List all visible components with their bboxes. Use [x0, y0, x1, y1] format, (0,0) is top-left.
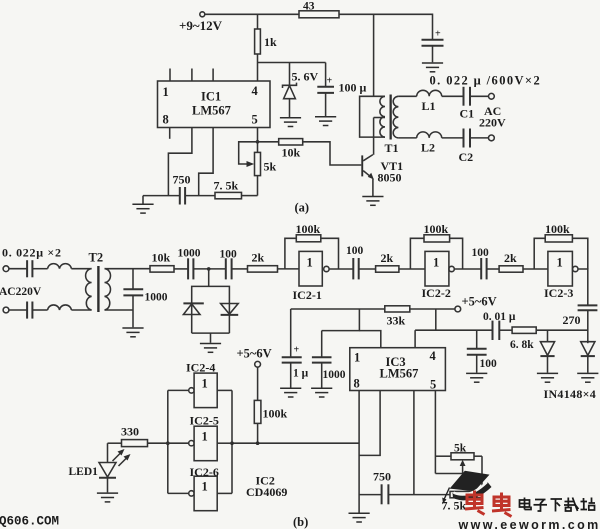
svg-text:6. 8k: 6. 8k	[510, 339, 534, 351]
capacitor 270	[563, 305, 598, 343]
wire node pin4	[257, 54, 259, 81]
svg-text:2k: 2k	[504, 251, 517, 265]
wire	[442, 95, 463, 97]
capacitor 0.022u lower	[27, 302, 32, 319]
svg-text:1 μ: 1 μ	[293, 368, 309, 380]
watermark graduation cap	[442, 471, 491, 504]
svg-text:4: 4	[430, 349, 437, 363]
capacitor C1	[460, 87, 475, 121]
resistor 6.8k	[510, 327, 536, 351]
wire	[487, 268, 500, 270]
svg-text:43: 43	[303, 1, 315, 13]
svg-text:IC2-1: IC2-1	[293, 288, 322, 302]
diode D4 IN4148	[581, 342, 595, 373]
capacitor 1000 coupling	[178, 248, 201, 280]
svg-text:1k: 1k	[264, 35, 277, 49]
svg-text:L1: L1	[422, 99, 436, 113]
svg-text:100: 100	[472, 247, 490, 259]
wire IC3 pin3 down	[413, 391, 415, 495]
svg-text:5. 6V: 5. 6V	[292, 70, 319, 84]
bottom rail with 750 cap	[143, 195, 179, 197]
wire pin stub to ground rail	[168, 128, 192, 196]
capacitor 0.022u upper	[27, 260, 32, 277]
wire out3 down	[578, 269, 588, 305]
wire	[499, 329, 512, 331]
svg-text:8050: 8050	[378, 171, 402, 185]
wire	[32, 309, 47, 311]
svg-text:+: +	[327, 76, 333, 87]
resistor 100k vertical	[254, 367, 287, 443]
resistor 330	[108, 425, 168, 447]
resistor 10k	[258, 139, 303, 160]
inductor L1	[417, 90, 442, 113]
svg-text:+5~6V: +5~6V	[237, 347, 272, 361]
wire	[523, 268, 548, 270]
wire	[232, 268, 248, 270]
svg-text:100 μ: 100 μ	[339, 81, 367, 95]
svg-text:IC2-4: IC2-4	[186, 361, 215, 375]
svg-text:C1: C1	[460, 107, 475, 121]
wire up to pot	[481, 456, 483, 491]
svg-text:T2: T2	[89, 251, 104, 265]
svg-text:270: 270	[563, 313, 581, 327]
diode D1 up	[183, 303, 203, 314]
wire with node	[193, 268, 225, 270]
zener diode 5.6V	[283, 63, 319, 118]
ground	[577, 373, 598, 382]
ground	[349, 513, 370, 522]
wire pin5 node	[257, 128, 259, 153]
svg-text:T1: T1	[385, 141, 399, 155]
svg-text:LM567: LM567	[192, 104, 231, 118]
svg-text:750: 750	[173, 173, 191, 187]
inverter bus left	[167, 390, 169, 493]
LED1	[69, 443, 131, 492]
resistor 7.5k	[214, 179, 242, 199]
ground	[466, 373, 487, 382]
wire	[71, 268, 91, 270]
wire	[9, 309, 27, 311]
resistor 2k s1	[376, 251, 399, 272]
svg-text:AC220V: AC220V	[0, 286, 42, 298]
inverter IC2-2	[422, 251, 455, 300]
node dot	[256, 140, 260, 144]
svg-text:5k: 5k	[264, 160, 277, 174]
svg-text:7. 5k: 7. 5k	[214, 179, 239, 193]
svg-text:(a): (a)	[295, 201, 310, 215]
wire	[359, 268, 376, 270]
svg-text:1: 1	[557, 256, 563, 270]
svg-text:330: 330	[121, 425, 139, 439]
op-amp IC1 LM567 box	[158, 81, 271, 128]
svg-text:2k: 2k	[381, 251, 394, 265]
svg-text:10k: 10k	[152, 251, 171, 265]
wire IC3 pin5 down	[434, 391, 436, 474]
wire	[185, 195, 215, 197]
wire	[442, 137, 463, 139]
svg-text:IC2-6: IC2-6	[190, 465, 219, 479]
svg-text:0. 022 μ /600V×2: 0. 022 μ /600V×2	[430, 74, 542, 88]
capacitor 0.01u	[483, 311, 516, 340]
wire	[399, 268, 425, 270]
resistor 7.5k hidden	[442, 491, 483, 512]
svg-text:100k: 100k	[296, 222, 321, 236]
svg-text:220V: 220V	[479, 116, 506, 130]
capacitor 1000 shunt	[123, 269, 167, 310]
node dot	[207, 267, 211, 271]
svg-text:+: +	[435, 29, 441, 40]
inductor input lower	[48, 305, 72, 310]
svg-text:1000: 1000	[145, 292, 168, 304]
T2 core	[97, 266, 99, 312]
resistor 10k	[150, 251, 174, 273]
transformer T1 primary loop	[360, 96, 385, 155]
svg-text:8: 8	[163, 113, 169, 127]
inverter IC2-1	[293, 251, 330, 302]
svg-text:5: 5	[430, 378, 436, 392]
svg-text:750: 750	[373, 470, 391, 484]
svg-text:8: 8	[354, 377, 360, 391]
resistor 43	[299, 1, 339, 18]
potentiometer 5k	[435, 443, 482, 474]
wire secondary top	[105, 268, 151, 270]
node dot	[256, 441, 260, 445]
ground	[311, 388, 332, 397]
diode D2 down	[221, 304, 239, 315]
op-amp IC3 LM567 box	[350, 348, 446, 392]
wire 10k to base	[303, 142, 362, 165]
wire	[278, 268, 300, 270]
ground	[537, 373, 558, 382]
supply rail +5~6V	[291, 295, 497, 328]
capacitor 750	[373, 470, 391, 505]
capacitor 1u	[282, 309, 309, 388]
svg-text:5: 5	[252, 113, 258, 127]
diode clipper frame	[192, 286, 230, 333]
ground	[315, 117, 336, 126]
svg-text:www.eeworm.com: www.eeworm.com	[458, 518, 600, 529]
wire drop left of 33k	[322, 309, 360, 331]
potentiometer 5k	[239, 142, 277, 196]
capacitor 100u	[317, 63, 366, 117]
svg-text:IN4148×4: IN4148×4	[544, 387, 597, 401]
capacitor 1000	[312, 331, 346, 388]
svg-text:(b): (b)	[293, 515, 308, 529]
transistor VT1 8050	[361, 155, 403, 196]
T2 secondary	[105, 269, 111, 310]
svg-text:1: 1	[202, 480, 208, 494]
resistor 2k input	[248, 251, 278, 273]
wire	[470, 95, 489, 97]
wire	[388, 494, 450, 496]
svg-text:L2: L2	[421, 141, 435, 155]
watermark text xia	[551, 499, 563, 512]
terminal input upper	[3, 266, 9, 272]
terminal input lower	[3, 307, 9, 313]
svg-text:1000: 1000	[178, 248, 201, 260]
watermark text zhan	[581, 498, 596, 511]
rail 750	[359, 494, 381, 496]
svg-text:LM567: LM567	[380, 367, 419, 381]
wire	[536, 329, 588, 331]
inverter IC2-5	[168, 414, 232, 461]
svg-text:33k: 33k	[387, 314, 406, 328]
svg-text:100k: 100k	[545, 222, 570, 236]
svg-text:+: +	[294, 345, 300, 356]
inverter IC2-6	[168, 465, 232, 511]
IC1 bottom pin stub nc	[169, 128, 171, 139]
resistor 100k fb2	[410, 222, 462, 269]
capacitor electrolytic top-right	[422, 29, 444, 63]
wire secondary top	[398, 95, 416, 97]
svg-text:2k: 2k	[252, 251, 265, 265]
transformer T2 primary	[86, 251, 103, 311]
inverter bus right	[231, 390, 233, 493]
resistor 1k	[255, 14, 277, 54]
svg-text:+9~12V: +9~12V	[179, 18, 223, 33]
rail to 0.01u	[415, 329, 492, 331]
svg-text:IC2-3: IC2-3	[544, 286, 573, 300]
inductor L2	[417, 132, 442, 155]
node dot	[166, 441, 170, 445]
T1 core	[390, 95, 392, 140]
ground left	[142, 196, 144, 204]
wire out1	[329, 268, 353, 270]
resistor 100k fb3	[534, 222, 588, 269]
svg-text:CD4069: CD4069	[246, 485, 287, 499]
wire top rail left	[205, 13, 299, 15]
svg-text:0. 01 μ: 0. 01 μ	[483, 311, 516, 323]
svg-text:Q606.COM: Q606.COM	[0, 515, 59, 529]
wire	[32, 268, 47, 270]
terminal +9~12V	[179, 12, 223, 33]
ground	[280, 118, 301, 127]
inverter IC2-3	[544, 251, 578, 300]
svg-text:1: 1	[354, 351, 360, 365]
inductor input upper	[48, 264, 72, 269]
capacitor 100 shunt	[467, 330, 497, 373]
svg-text:IC1: IC1	[201, 90, 221, 104]
ground	[280, 388, 301, 397]
wire	[9, 268, 27, 270]
svg-text:+5~6V: +5~6V	[462, 295, 497, 309]
capacitor 100 c1	[346, 245, 364, 279]
svg-text:1: 1	[202, 377, 208, 391]
ground	[362, 197, 383, 206]
capacitor 100 c2	[472, 247, 490, 279]
wire top rail right	[339, 14, 433, 39]
wire drop right of 33k	[435, 309, 437, 330]
wire	[470, 137, 489, 139]
svg-text:IC2-2: IC2-2	[422, 286, 451, 300]
inverter IC2-4	[168, 361, 232, 408]
wire node to 100u	[258, 62, 326, 64]
terminal AC 220V lower	[489, 135, 495, 141]
svg-text:10k: 10k	[282, 146, 301, 160]
wire secondary bottom	[398, 137, 416, 139]
wire	[71, 309, 91, 311]
wire IC3 pin2 jog	[359, 391, 380, 456]
svg-text:100: 100	[346, 245, 364, 257]
wire supply to T1	[373, 14, 375, 96]
diode D3 IN4148	[540, 330, 554, 373]
resistor 100k fb1	[285, 222, 339, 269]
label IC2 CD4069	[246, 474, 287, 500]
wire to ground	[210, 333, 212, 343]
node dot	[230, 441, 234, 445]
wire IC3 pin8 down to ground	[358, 391, 360, 513]
svg-text:100: 100	[220, 249, 238, 261]
svg-text:1: 1	[163, 85, 169, 99]
svg-text:4: 4	[252, 84, 259, 98]
svg-text:100: 100	[480, 358, 498, 370]
ground	[97, 493, 118, 502]
wire pin stub to rail jog	[199, 128, 213, 196]
watermark text dian	[520, 498, 532, 510]
T1 secondary winding	[393, 96, 398, 138]
watermark text zai	[564, 498, 579, 512]
watermark text zi	[534, 500, 548, 512]
capacitor C2	[459, 129, 474, 165]
svg-text:IC2-5: IC2-5	[190, 414, 219, 428]
ground	[200, 344, 221, 353]
capacitor 100 coupling	[220, 249, 238, 280]
svg-text:1: 1	[202, 430, 208, 444]
wire	[174, 268, 188, 270]
ground	[422, 63, 443, 72]
wire node down	[208, 269, 210, 287]
svg-text:1000: 1000	[323, 369, 346, 381]
resistor 2k s2	[499, 251, 523, 272]
watermark bug char 1	[465, 491, 485, 515]
wire to IC3 pin top-right	[414, 330, 416, 348]
svg-text:0. 022μ ×2: 0. 022μ ×2	[2, 246, 62, 260]
svg-text:C2: C2	[459, 150, 474, 164]
IC1 top pin stubs	[170, 69, 213, 82]
svg-text:100k: 100k	[424, 222, 449, 236]
terminal +5~6V left	[237, 347, 272, 368]
terminal AC 220V upper	[479, 93, 506, 129]
long wire to IC3 pin8	[232, 442, 359, 444]
wire to IC3 pin top-left	[359, 331, 380, 348]
svg-text:1: 1	[307, 256, 313, 270]
watermark bug char 2	[492, 493, 512, 517]
capacitor 750	[173, 173, 191, 205]
wire secondary bottom to ground	[105, 310, 134, 327]
wire	[242, 195, 258, 197]
svg-text:1: 1	[433, 256, 439, 270]
svg-text:LED1: LED1	[69, 466, 99, 478]
svg-text:5k: 5k	[454, 443, 467, 455]
wire out2	[454, 268, 480, 270]
ground	[122, 328, 143, 337]
svg-text:100k: 100k	[263, 407, 288, 421]
